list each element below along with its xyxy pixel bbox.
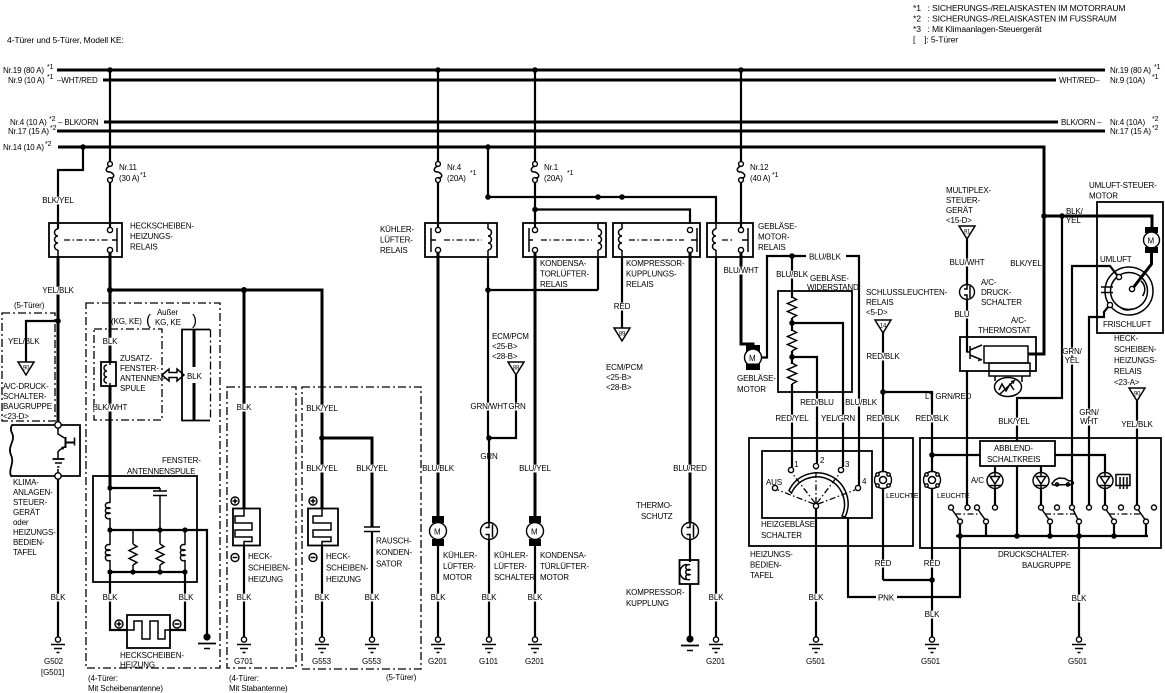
- svg-text:KUPPLUNGS-: KUPPLUNGS-: [626, 270, 677, 279]
- svg-text:(20A): (20A): [447, 174, 466, 183]
- svg-text:*1: *1: [47, 64, 54, 71]
- resistor R2: [788, 330, 797, 351]
- wire BLK to G553 right: [364, 532, 380, 638]
- node railA x622: [619, 194, 625, 200]
- svg-text:M: M: [531, 528, 538, 537]
- wire bus L2 Nr.9 (10A) WHT/RED: [8, 74, 1159, 85]
- svg-text:*2: *2: [50, 125, 57, 132]
- fuse Nr.12 (40A): [737, 162, 778, 183]
- svg-text:BEDIEN-: BEDIEN-: [750, 561, 782, 570]
- svg-text:Nr.11: Nr.11: [119, 163, 137, 172]
- connector triangle 90 right: [1129, 388, 1145, 401]
- wire BLK left to defogger: [102, 572, 127, 630]
- wire motor output to BLU/BLK rail: [762, 256, 807, 358]
- wire to chassis ground: [185, 530, 207, 635]
- wire BLU/BLK into resistor: [776, 256, 809, 298]
- node GRN join: [486, 435, 492, 441]
- heater element Heckscheibenheizung stab: [233, 509, 291, 585]
- node lamp join: [929, 577, 935, 583]
- svg-text:MOTOR: MOTOR: [737, 385, 766, 394]
- svg-text:WHT: WHT: [1080, 417, 1098, 426]
- svg-text:WIDERSTAND: WIDERSTAND: [807, 283, 859, 292]
- wire RED compressor relay coil to ECM: [614, 257, 631, 328]
- node abblend left: [929, 452, 935, 458]
- connector triangle 88: [508, 362, 524, 375]
- svg-text:GRN/: GRN/: [1079, 408, 1099, 417]
- wire branch to connector 90: [26, 321, 58, 362]
- svg-text:BLU: BLU: [954, 310, 969, 319]
- wire bus L3 Nr.4 (10A) BLK/ORN: [10, 116, 1159, 127]
- svg-text:WHT/RED–: WHT/RED–: [1059, 76, 1100, 85]
- svg-text:LÜFTER-: LÜFTER-: [494, 562, 527, 571]
- svg-text:*1: *1: [567, 170, 574, 177]
- svg-text:14: 14: [880, 324, 887, 330]
- box Klima-Anlagen-Steuergerät (wavy edge): [10, 422, 80, 557]
- node L1 x438: [435, 67, 441, 73]
- svg-text:[G501]: [G501]: [41, 668, 64, 677]
- svg-text:BLK: BLK: [431, 593, 446, 602]
- svg-text:MULTIPLEX-: MULTIPLEX-: [946, 186, 992, 195]
- svg-text:LEUCHTE: LEUCHTE: [886, 491, 919, 500]
- label Multiplex-Steuergerät: [946, 186, 992, 225]
- svg-text:M: M: [1148, 237, 1155, 246]
- svg-text:RED: RED: [614, 302, 631, 311]
- svg-text:MOTOR: MOTOR: [540, 573, 569, 582]
- svg-text:BLK: BLK: [482, 593, 497, 602]
- node bus 1050: [1047, 533, 1053, 539]
- contact umluft + wire GRN/YEL: [1062, 266, 1121, 505]
- connector triangle 89: [614, 328, 630, 341]
- svg-text:YEL: YEL: [1065, 356, 1080, 365]
- switch A/C-Druckschalter: [960, 278, 1023, 307]
- svg-text:TAFEL: TAFEL: [13, 548, 37, 557]
- svg-text:YEL: YEL: [1066, 216, 1081, 225]
- svg-text:A/C-: A/C-: [1011, 316, 1027, 325]
- transistor Q in klima box: [53, 429, 75, 474]
- node bus 1114: [1111, 533, 1117, 539]
- node railB x535: [532, 207, 538, 213]
- wire BLU/WHT blower feed: [724, 253, 759, 346]
- terminal minus stab: [231, 554, 239, 562]
- svg-text:LÜFTER-: LÜFTER-: [443, 562, 476, 571]
- ground G501 lamps: [921, 637, 941, 666]
- svg-text:*2: *2: [1152, 116, 1159, 123]
- svg-text:ZUSATZ-: ZUSATZ-: [120, 354, 153, 363]
- switch SA A/C pushbutton: [949, 505, 998, 536]
- svg-text:*1: *1: [140, 172, 147, 179]
- label RED/YEL: [776, 415, 808, 423]
- connector triangle 91: [959, 226, 975, 239]
- svg-text:GERÄT: GERÄT: [946, 206, 973, 215]
- box A/C-Thermostat: [960, 337, 1036, 371]
- wire coil rail A y197: [488, 197, 716, 224]
- svg-text:HEIZUNGS-: HEIZUNGS-: [130, 232, 173, 241]
- svg-text:Nr.4: Nr.4: [447, 163, 462, 172]
- svg-text:G101: G101: [479, 657, 499, 666]
- svg-text:FENSTER-: FENSTER-: [120, 364, 159, 373]
- sensor rect thermostat: [984, 346, 1028, 363]
- label (Außer KG, KE): [146, 308, 197, 329]
- motor M4 Umluft: [1144, 227, 1160, 253]
- svg-text:(5-Türer): (5-Türer): [386, 673, 417, 682]
- svg-text:GRN/WHT: GRN/WHT: [470, 402, 507, 411]
- svg-text:HEIZUNGS-: HEIZUNGS-: [1114, 356, 1157, 365]
- svg-text:MOTOR-: MOTOR-: [758, 233, 790, 242]
- resistor branch 3: [156, 530, 164, 572]
- node blower resistor feed: [789, 253, 795, 259]
- label RED/BLU: [801, 399, 833, 407]
- svg-text:BLU/BLK: BLU/BLK: [422, 464, 455, 473]
- wire BLK to G502: [50, 479, 66, 637]
- wire BLK/YEL branch to Abblendschaltkreis: [998, 216, 1062, 441]
- svg-text:SPULE: SPULE: [120, 384, 146, 393]
- svg-text:91: 91: [964, 230, 971, 236]
- svg-text:<5-D>: <5-D>: [866, 308, 888, 317]
- svg-text:SCHALTER-: SCHALTER-: [3, 392, 47, 401]
- node tap2: [789, 354, 795, 360]
- svg-text:M: M: [434, 528, 441, 537]
- svg-text:SCHEIBEN-: SCHEIBEN-: [248, 564, 291, 573]
- label Heckscheiben-Heizungs-Relais 23-A: [1114, 334, 1157, 387]
- ground G201 radiator fan: [428, 637, 448, 666]
- terminal plus 5door: [309, 497, 317, 505]
- wire GRN from ECM to fan switch: [480, 375, 526, 461]
- svg-text:[ ]: 5-Türer: [ ]: 5-Türer: [913, 35, 958, 45]
- wire lamp3 to switch: [1104, 488, 1106, 506]
- svg-text:DRUCKSCHALTER-: DRUCKSCHALTER-: [998, 550, 1070, 559]
- svg-text:*1 : SICHERUNGS-/RELAISKASTE: *1 : SICHERUNGS-/RELAISKASTEN IM MOTORRA…: [913, 3, 1125, 13]
- svg-text:*1: *1: [470, 170, 477, 177]
- svg-text:89: 89: [619, 332, 626, 338]
- wire RED lamp2 to ground: [924, 489, 941, 638]
- box Druckschalter-Baugruppe: [920, 438, 1161, 570]
- svg-text:*2 : SICHERUNGS-/RELAISKASTE: *2 : SICHERUNGS-/RELAISKASTEN IM FUSSRAU…: [913, 14, 1117, 24]
- svg-text:RELAIS: RELAIS: [130, 243, 158, 252]
- node y572 x185: [182, 569, 187, 574]
- resistor R3: [788, 363, 797, 384]
- symbol equivalence arrow: [162, 369, 184, 381]
- wire switch ground bus: [956, 535, 1148, 537]
- box 4-door Stabantenne dashed: [227, 387, 296, 693]
- wire feed x488 from L5 to coil rail A: [487, 147, 489, 197]
- wire BLK to G553 left: [314, 546, 330, 638]
- svg-text:KLIMA-: KLIMA-: [13, 478, 39, 487]
- node tap1: [789, 320, 795, 326]
- svg-text:90: 90: [23, 366, 30, 372]
- svg-text:YEL/BLK: YEL/BLK: [1121, 420, 1153, 429]
- svg-text:YEL/BLK: YEL/BLK: [42, 286, 74, 295]
- svg-text:RELAIS: RELAIS: [758, 243, 786, 252]
- svg-text:Nr.19 (80 A): Nr.19 (80 A): [3, 66, 44, 75]
- svg-text:Nr.9 (10 A): Nr.9 (10 A): [8, 76, 45, 85]
- label ECM/PCM compressor: [606, 363, 643, 392]
- wire feed x535 from L1 to fuse Nr.1: [534, 70, 536, 162]
- svg-text:KÜHLER-: KÜHLER-: [494, 551, 529, 560]
- svg-text:KG, KE: KG, KE: [155, 318, 181, 327]
- wire feed x438 from L1 to fuse Nr.4: [437, 70, 439, 162]
- svg-text:M: M: [749, 354, 756, 363]
- svg-text:ANLAGEN-: ANLAGEN-: [13, 488, 53, 497]
- wire RED/BLK to lamp 1: [866, 333, 900, 471]
- svg-text:BLK: BLK: [709, 593, 724, 602]
- fuse Nr.11 (30A): [106, 162, 146, 183]
- svg-text:A/C: A/C: [971, 476, 984, 485]
- svg-text:(4-Türer:: (4-Türer:: [88, 674, 118, 683]
- relay RH Heckscheiben-Heizungs-Relais: [49, 222, 194, 258]
- svg-text:ECM/PCM: ECM/PCM: [606, 363, 643, 372]
- svg-text:RELAIS: RELAIS: [626, 280, 654, 289]
- wire YEL/BLK to defogger switch: [1121, 401, 1154, 505]
- svg-text:FRISCHLUFT: FRISCHLUFT: [1103, 320, 1152, 329]
- svg-text:G502: G502: [44, 657, 64, 666]
- svg-text:KUPPLUNG: KUPPLUNG: [626, 599, 669, 608]
- node bus x244: [241, 287, 247, 293]
- node y572 x110: [107, 569, 112, 574]
- svg-text:KONDEN-: KONDEN-: [376, 548, 412, 557]
- rotary vent actuator circles: [1101, 267, 1153, 315]
- box Gebläse-Widerstand: [778, 274, 859, 392]
- clutch Kompressor-Kupplung: [626, 540, 699, 638]
- box KG,KE variant dashed: [94, 329, 162, 420]
- svg-text:G201: G201: [525, 657, 545, 666]
- rotary switch dashed rays: [778, 469, 855, 504]
- motor M2 Kondensatorlüfter-Motor: [527, 516, 590, 637]
- capacitor Rausch-Kondensator: [364, 527, 412, 569]
- svg-text:GRN: GRN: [508, 402, 526, 411]
- node 5door split: [319, 435, 325, 441]
- svg-text:BLK: BLK: [1072, 594, 1087, 603]
- terminal minus 5door: [309, 554, 317, 562]
- svg-text:BLK: BLK: [315, 593, 330, 602]
- svg-text:HEIZUNG: HEIZUNG: [326, 575, 361, 584]
- wire LT GRN/RED to switch: [925, 371, 972, 505]
- wire RED/YEL to contact 1: [791, 384, 793, 467]
- svg-text:FENSTER-: FENSTER-: [162, 456, 201, 465]
- ground G502: [41, 637, 65, 677]
- wire BLK heater switch ground: [808, 509, 824, 638]
- rotary switch contacts: [766, 456, 867, 509]
- svg-text:G201: G201: [428, 657, 448, 666]
- svg-text:ECM/PCM: ECM/PCM: [492, 332, 529, 341]
- box Außer KG,KE variant: [182, 330, 210, 421]
- svg-text:*1: *1: [1154, 64, 1161, 71]
- wire lamp1 to switch: [994, 488, 996, 506]
- svg-text:SCHALTKREIS: SCHALTKREIS: [987, 455, 1040, 464]
- lamp indicator condenser with car icon: [1033, 466, 1074, 489]
- wire abblend output to bus: [1016, 466, 1018, 536]
- svg-text:Nr.12: Nr.12: [750, 163, 769, 172]
- node railA x488: [485, 194, 491, 200]
- svg-text:HEIZUNGS-: HEIZUNGS-: [750, 550, 793, 559]
- relay K4 Gebläse-Motor-Relais: [707, 222, 797, 257]
- svg-text:BAUGRUPPE: BAUGRUPPE: [3, 402, 52, 411]
- switch SB vent pushbutton: [1039, 505, 1092, 536]
- coil Zusatz-Fensterantennenspule: [101, 354, 166, 393]
- svg-text:BLU/WHT: BLU/WHT: [724, 266, 759, 275]
- svg-text:Nr.1: Nr.1: [544, 163, 559, 172]
- node x58 y321: [55, 318, 61, 324]
- svg-text:THERMOSTAT: THERMOSTAT: [978, 326, 1031, 335]
- coil branch 1: [105, 530, 110, 572]
- wire branch to condenser: [322, 438, 388, 527]
- coil branch 4: [180, 530, 185, 572]
- svg-text:BLK: BLK: [51, 593, 66, 602]
- svg-text:RAUSCH-: RAUSCH-: [376, 537, 412, 546]
- wire BLK/YEL to umluft motor: [1041, 207, 1152, 227]
- svg-text:BLK/YEL: BLK/YEL: [42, 196, 74, 205]
- lamp indicator A/C: [971, 466, 1003, 489]
- box 5-door dashed: [302, 387, 421, 682]
- wire BLK/YEL main to thermostat: [1010, 216, 1044, 354]
- wire RED lamp1 down: [875, 489, 932, 581]
- wire YEL/BLK relay RH coil to klima unit: [42, 257, 75, 424]
- svg-text:KONDENSA-: KONDENSA-: [540, 259, 587, 268]
- ground G501 heater: [806, 637, 826, 666]
- svg-text:BEDIEN-: BEDIEN-: [13, 538, 45, 547]
- svg-text:BLK/YEL: BLK/YEL: [306, 464, 338, 473]
- svg-text:A/C-DRUCK-: A/C-DRUCK-: [3, 382, 49, 391]
- svg-text:MOTOR: MOTOR: [443, 573, 472, 582]
- svg-text:G501: G501: [921, 657, 941, 666]
- svg-text:HECK-: HECK-: [1114, 334, 1139, 343]
- box 4-door Scheibenantenne dashed: [86, 303, 220, 693]
- svg-text:BAUGRUPPE: BAUGRUPPE: [1022, 561, 1071, 570]
- svg-text:SCHUTZ: SCHUTZ: [641, 512, 673, 521]
- ground G553 right: [362, 637, 382, 666]
- svg-text:88: 88: [513, 366, 520, 372]
- ground G101: [479, 637, 499, 666]
- svg-text:GEBLÄSE-: GEBLÄSE-: [810, 274, 849, 283]
- fuse Nr.1 (20A): [531, 162, 573, 183]
- svg-text:SATOR: SATOR: [376, 560, 402, 569]
- ground chassis compressor: [681, 635, 699, 650]
- svg-text:GEBLÄSE-: GEBLÄSE-: [758, 222, 797, 231]
- wire GRN down to switch: [488, 438, 490, 523]
- svg-text:*3 : Mit Klimaanlagen-Steuer: *3 : Mit Klimaanlagen-Steuergerät: [913, 24, 1042, 34]
- svg-text:BLK: BLK: [237, 403, 252, 412]
- svg-text:BLK/ORN –: BLK/ORN –: [1061, 118, 1102, 127]
- fuse Nr.4 (20A): [434, 162, 476, 183]
- ground G201 condenser fan: [525, 637, 545, 666]
- svg-text:2: 2: [820, 456, 825, 465]
- ground G553 left: [312, 637, 332, 666]
- svg-text:<15-D>: <15-D>: [946, 216, 972, 225]
- box Heizgebläse-Schalter: [761, 451, 872, 540]
- box A/C-Druckschalter-Baugruppe dashed: [2, 313, 55, 421]
- svg-text:THERMO-: THERMO-: [636, 501, 673, 510]
- wire feed x110 from L1 to relay H: [109, 70, 111, 162]
- label ECM/PCM 25B 28B: [492, 332, 529, 361]
- svg-text:SCHALTER: SCHALTER: [761, 531, 802, 540]
- svg-text:RED/BLK: RED/BLK: [915, 414, 949, 423]
- svg-text:YEL/GRN: YEL/GRN: [821, 414, 855, 423]
- svg-text:TORLÜFTER-: TORLÜFTER-: [540, 270, 590, 279]
- svg-text:LT GRN/RED: LT GRN/RED: [925, 392, 972, 401]
- ground chassis in antenna box: [198, 633, 216, 648]
- svg-text:BLK/YEL: BLK/YEL: [1010, 259, 1042, 268]
- svg-text:PNK: PNK: [878, 594, 895, 603]
- svg-text:STEUER-: STEUER-: [946, 196, 981, 205]
- svg-text:BLK: BLK: [925, 610, 940, 619]
- node L5 x488: [485, 144, 491, 150]
- svg-text:SCHLUSSLEUCHTEN-: SCHLUSSLEUCHTEN-: [866, 288, 948, 297]
- svg-text:HECKSCHEIBEN-: HECKSCHEIBEN-: [130, 222, 194, 231]
- node y530 x110: [107, 527, 112, 532]
- svg-text:AUS: AUS: [766, 478, 782, 487]
- relay K2 Kondensatorlüfter-Relais: [523, 223, 606, 289]
- svg-text:G201: G201: [706, 657, 726, 666]
- svg-text:HEIZUNGS-: HEIZUNGS-: [13, 528, 56, 537]
- svg-text:BLK: BLK: [187, 372, 202, 381]
- relay K1 Kühler-Lüfter-Relais: [380, 223, 497, 257]
- svg-text:<28-B>: <28-B>: [492, 352, 518, 361]
- svg-text:Nr.4 (10 A): Nr.4 (10 A): [10, 118, 47, 127]
- box Abblend-Schaltkreis: [980, 441, 1055, 466]
- svg-text:90: 90: [1134, 392, 1141, 398]
- svg-text:BLU/BLK: BLU/BLK: [809, 253, 842, 262]
- lower rect thermostat: [989, 363, 1030, 376]
- svg-text:TÜRLÜFTER-: TÜRLÜFTER-: [540, 562, 589, 571]
- svg-text:): ): [192, 312, 197, 329]
- svg-text:Nr.14 (10 A): Nr.14 (10 A): [3, 143, 44, 152]
- svg-text:<28-B>: <28-B>: [606, 383, 632, 392]
- svg-text:RED: RED: [924, 559, 941, 568]
- svg-text:*1: *1: [772, 172, 779, 179]
- svg-text:BLU/WHT: BLU/WHT: [950, 258, 985, 267]
- svg-text:ANTENNEN-: ANTENNEN-: [120, 374, 166, 383]
- node L1 x535: [532, 67, 538, 73]
- wire BLK from bus to defogger (stab): [236, 290, 252, 509]
- wire lamp2 to switch: [1040, 488, 1042, 506]
- wire abblend to lamp3: [1055, 455, 1105, 474]
- transistor in thermostat: [967, 337, 982, 362]
- svg-text:BLU/BLK: BLU/BLK: [776, 270, 809, 279]
- svg-text:G553: G553: [312, 657, 332, 666]
- svg-text:RELAIS: RELAIS: [380, 246, 408, 255]
- node y572 x160: [157, 569, 162, 574]
- svg-text:MOTOR: MOTOR: [1089, 192, 1118, 201]
- wire bus y290 to 5-door branch: [110, 290, 322, 389]
- svg-text:UMLUFT: UMLUFT: [1100, 255, 1132, 264]
- svg-text:TAFEL: TAFEL: [750, 571, 774, 580]
- wire bus L4 Nr.17 (15A): [8, 125, 1159, 136]
- node bus 1079: [1076, 533, 1082, 539]
- node railA x598: [595, 194, 601, 200]
- svg-text:HEIZUNG: HEIZUNG: [248, 575, 283, 584]
- svg-text:Nr.9 (10A): Nr.9 (10A): [1110, 76, 1145, 85]
- svg-text:<25-B>: <25-B>: [492, 342, 518, 351]
- node bus 960: [957, 533, 963, 539]
- coil antenna upper: [109, 488, 111, 503]
- connector triangle 14: [875, 320, 891, 333]
- svg-text:Nr.17 (15 A): Nr.17 (15 A): [1110, 127, 1151, 136]
- svg-text:Mit Scheibenantenne): Mit Scheibenantenne): [88, 684, 163, 693]
- svg-text:LEUCHTE: LEUCHTE: [937, 491, 970, 500]
- svg-text:Mit Stabantenne): Mit Stabantenne): [229, 684, 288, 693]
- svg-text:*2: *2: [1152, 125, 1159, 132]
- svg-text:4: 4: [862, 477, 867, 486]
- svg-text:BLK: BLK: [237, 593, 252, 602]
- svg-text:HEIZGEBLÄSE-: HEIZGEBLÄSE-: [761, 520, 818, 529]
- ground G501 switch bus: [1068, 637, 1088, 666]
- wire bus L5 Nr.14 (10A) turns down at right as BLK/YEL feed: [3, 141, 1044, 216]
- svg-text:<23-D>: <23-D>: [3, 412, 29, 421]
- svg-text:(4-Türer:: (4-Türer:: [229, 674, 259, 683]
- resistor branch 2: [129, 530, 137, 572]
- svg-text:*2: *2: [49, 116, 56, 123]
- svg-text:RELAIS: RELAIS: [866, 298, 894, 307]
- wire feed x83 from L5 jog to x58 (BLK/YEL): [42, 147, 83, 229]
